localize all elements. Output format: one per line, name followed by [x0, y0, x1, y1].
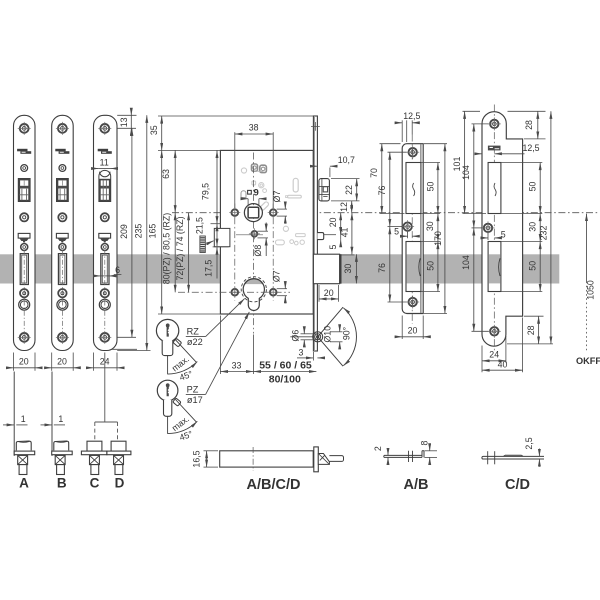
dimension 104 plate C/D screws	[472, 123, 489, 125]
svg-text:5: 5	[328, 244, 338, 249]
latch pivot detail circles	[316, 336, 319, 339]
faceplate latch head front	[58, 180, 68, 201]
svg-text:A/B: A/B	[404, 477, 429, 493]
svg-text:A/B/C/D: A/B/C/D	[247, 477, 301, 493]
lock faceplate bar front view	[313, 116, 317, 351]
profile view latch B	[51, 372, 53, 456]
faceplate cylinder hole	[57, 299, 68, 310]
svg-text:33: 33	[232, 360, 242, 370]
svg-text:79,5: 79,5	[201, 183, 211, 200]
strike plate C/D outline	[482, 112, 523, 346]
faceplate bolt slot	[58, 254, 66, 285]
extension line case top	[158, 149, 220, 151]
svg-text:35: 35	[149, 125, 159, 135]
dimension 50 upper slot plate A/B	[422, 162, 441, 164]
dimension 79.5	[216, 150, 218, 223]
svg-text:50: 50	[527, 182, 537, 192]
faceplate top screw	[58, 124, 67, 133]
faceplate follower screw	[58, 213, 66, 221]
faceplate follower screw	[20, 213, 28, 221]
strike plate A/B lip line	[420, 144, 422, 313]
svg-text:50: 50	[425, 182, 435, 192]
RZ leader to case cylinder	[206, 299, 245, 337]
dimension 76 lower plate A/B	[388, 301, 407, 303]
svg-text:30: 30	[527, 222, 537, 232]
section A/B hatch ticks	[408, 451, 410, 462]
svg-text:165: 165	[148, 224, 158, 239]
dimension 50 lower slot plate A/B	[422, 291, 441, 293]
deadbolt thrown white part	[313, 254, 339, 284]
svg-text:B: B	[57, 476, 67, 491]
dimension 76 upper plate A/B	[388, 151, 407, 153]
90 degree swing fan	[318, 307, 343, 337]
faceplate outline at x=93.5	[94, 115, 118, 350]
centerline through left hole column	[234, 204, 236, 301]
dimension 235 faceplate height	[117, 350, 150, 352]
strike plate A/B latch slot	[406, 163, 421, 214]
faceplate wechsel plate	[18, 233, 30, 238]
svg-text:2: 2	[373, 446, 383, 451]
svg-text:28: 28	[526, 325, 536, 335]
svg-text:10,7: 10,7	[338, 155, 355, 165]
svg-text:38: 38	[249, 123, 259, 133]
faceplate latch cutout	[57, 179, 69, 202]
dimension 5 middle screw offset plate C/D	[487, 233, 489, 240]
faceplate adjustment screw	[59, 165, 66, 172]
section A/B bent lip	[422, 451, 424, 458]
RZ key symbol	[166, 323, 170, 336]
band through bolt slot	[407, 254, 421, 283]
extension line lock top	[158, 115, 313, 117]
svg-text:30: 30	[425, 221, 435, 231]
dimension 50 upper slot plate C/D	[502, 162, 543, 164]
dimension 38 hole spacing	[234, 132, 236, 208]
strike plate A/B centerline	[411, 135, 413, 325]
strike plate C/D middle screw	[484, 224, 492, 232]
main horizontal centerline	[172, 212, 599, 214]
svg-text:235: 235	[133, 224, 143, 239]
svg-text:30: 30	[343, 264, 353, 274]
PZ rotation limit lines	[167, 417, 169, 434]
profile view latch D	[111, 441, 126, 451]
dimension 170 plate A/B height	[424, 143, 447, 145]
door cross-section gray band	[0, 254, 559, 283]
dimension 24 plate C/D	[481, 346, 483, 373]
svg-text:21,5: 21,5	[195, 217, 205, 234]
svg-text:12,5: 12,5	[403, 111, 420, 121]
faceplate bottom screw	[58, 333, 67, 342]
svg-text:A: A	[19, 476, 29, 491]
dimension 24 faceplate C/D width	[93, 353, 95, 371]
dimension 13 fp3 top to screw	[117, 114, 136, 116]
dimension 17.5	[216, 247, 218, 278]
dimension 21.5 wechsel	[216, 224, 218, 247]
svg-text:209: 209	[119, 224, 129, 239]
fixing hole right of cylinder	[270, 289, 277, 296]
strike plate A/B top screw	[409, 148, 417, 156]
dimension 22 latch height	[331, 178, 360, 180]
dimension 40 plate C/D	[522, 318, 524, 373]
svg-text:RZ: RZ	[187, 327, 200, 337]
svg-text:70: 70	[369, 168, 379, 178]
faceplate latch cutout rounded	[99, 170, 111, 201]
profile view latch A	[13, 372, 15, 456]
svg-text:6: 6	[115, 265, 120, 275]
section C/D strike plate	[482, 456, 544, 459]
faceplate logo	[17, 149, 27, 152]
faceplate adjustment screw	[21, 165, 28, 172]
svg-text:3: 3	[298, 347, 303, 357]
auxiliary bolt	[317, 233, 323, 240]
cylinder row centerline	[178, 291, 290, 293]
faceplate top screw	[20, 124, 29, 133]
center hole below follower	[252, 231, 258, 237]
strike plate C/D bottom screw	[490, 327, 498, 335]
faceplate cylinder hole	[99, 299, 110, 310]
side view latch wedge	[318, 454, 329, 465]
dimension 41 centerline to deadbolt	[351, 213, 353, 255]
RZ cylinder detail	[156, 319, 178, 341]
fixing hole right of follower	[270, 209, 277, 216]
dashed circle RZ 22mm option	[241, 277, 266, 302]
dimension 232 plate C/D height	[507, 343, 553, 345]
dimension 80(PZ)/80.5(RZ)	[174, 213, 176, 293]
PZ leader to case cylinder	[206, 312, 250, 395]
svg-text:90°: 90°	[341, 327, 351, 340]
svg-text:D: D	[115, 476, 125, 491]
strike plate C/D bolt slot	[488, 242, 501, 292]
lock case body	[220, 150, 313, 314]
band through plate C/D bolt slot	[489, 254, 501, 283]
bar top screw cross	[311, 125, 320, 127]
svg-text:9: 9	[254, 187, 259, 198]
PZ leader underline	[186, 393, 206, 395]
strike plate C/D centerline	[493, 105, 495, 353]
faceplate small screw	[101, 244, 108, 251]
deadbolt head edge thick	[340, 254, 342, 284]
centerline through right hole column	[272, 204, 274, 301]
svg-text:104: 104	[461, 165, 471, 180]
dimension 70 plate A/B	[380, 143, 401, 145]
dimension 165 case height	[161, 150, 163, 314]
svg-text:20: 20	[19, 356, 29, 366]
dimension 5 middle screw offset plate A/B	[407, 232, 409, 239]
svg-text:OKFF: OKFF	[576, 356, 600, 366]
latch front view	[319, 179, 330, 201]
leader arrow to wechsel cutout	[206, 241, 214, 245]
svg-text:170: 170	[433, 231, 443, 246]
dimension 33 backset part	[219, 316, 221, 375]
svg-text:11: 11	[100, 158, 109, 168]
svg-text:PZ: PZ	[187, 385, 199, 395]
dimension 30 between slots plate A/B	[422, 241, 441, 243]
faceplate logo	[98, 149, 108, 152]
faceplate latch head front	[100, 180, 110, 201]
faceplate bolt slot	[20, 254, 28, 285]
PZ key symbol	[166, 383, 170, 396]
dimension 16.5 case thickness	[204, 450, 219, 452]
faceplate cylinder hole	[19, 299, 30, 310]
svg-text:20: 20	[57, 356, 67, 366]
dimension 104 lower plate C/D screws	[472, 330, 489, 332]
dimension 11 latch cutout width fp3	[93, 168, 99, 170]
dimension 63 case top to centerline	[174, 150, 176, 212]
dimension 20 faceplate B width	[51, 353, 53, 371]
svg-text:1050: 1050	[586, 280, 596, 300]
svg-text:Ø8: Ø8	[253, 245, 263, 257]
dimension 6 bolt slot width fp3	[94, 275, 101, 277]
faceplate bolt slot	[101, 254, 109, 285]
faceplate outline at x=51.7	[52, 115, 73, 350]
svg-text:20: 20	[408, 325, 418, 335]
faceplate latch cutout	[18, 179, 30, 202]
svg-text:28: 28	[524, 120, 534, 130]
svg-text:1: 1	[58, 414, 63, 424]
faceplate logo	[55, 149, 65, 152]
svg-text:C/D: C/D	[505, 477, 530, 493]
svg-text:5: 5	[501, 229, 506, 239]
svg-text:Ø7: Ø7	[272, 270, 282, 282]
PZ cylinder detail	[157, 380, 178, 401]
dimension 5 aux bolt height	[340, 228, 342, 235]
dimension 12.5 plate C/D	[476, 153, 482, 155]
svg-text:22: 22	[344, 185, 354, 195]
svg-text:76: 76	[377, 186, 387, 196]
strike plate C/D latch slot	[488, 163, 501, 214]
dimension 1 profile A	[3, 424, 14, 426]
faceplate bottom screw	[20, 333, 29, 342]
dimension 20 plate A/B width	[401, 316, 403, 340]
case vertical centerline	[252, 153, 254, 334]
faceplate latch head front	[19, 180, 29, 201]
svg-text:72(PZ) / 74 (RZ): 72(PZ) / 74 (RZ)	[175, 216, 185, 280]
strike plate A/B outline	[402, 144, 423, 314]
svg-text:104: 104	[461, 255, 471, 270]
svg-text:1: 1	[21, 414, 26, 424]
svg-text:20: 20	[324, 288, 334, 298]
dimension 20 centerline to aux bolt	[340, 213, 342, 235]
section C/D hatch ticks	[487, 451, 489, 464]
svg-text:12: 12	[339, 202, 349, 212]
svg-text:55 / 60 / 65: 55 / 60 / 65	[259, 359, 312, 371]
svg-text:232: 232	[538, 226, 548, 241]
svg-text:24: 24	[489, 350, 499, 360]
svg-text:12,5: 12,5	[522, 143, 539, 153]
faceplate bottom screw	[100, 333, 109, 342]
follower with square spindle hole 9mm	[244, 204, 262, 222]
dimension 20 faceplate A width	[13, 353, 15, 371]
profile view latch C	[87, 441, 102, 451]
side view lock case bar	[220, 451, 314, 467]
dimension 1 profile B	[41, 424, 53, 426]
dimension 10.7 latch projection	[329, 168, 331, 178]
RZ leader underline	[186, 336, 206, 338]
dimension 1050 height above floor	[586, 214, 588, 282]
svg-text:ø17: ø17	[187, 395, 203, 405]
dimension 12.5 plate A/B	[406, 120, 408, 142]
faceplate small screw	[59, 244, 66, 251]
svg-text:ø22: ø22	[187, 337, 203, 347]
dimension 30 deadbolt height	[355, 254, 357, 283]
faceplate outline at x=13.5	[14, 115, 36, 350]
cylinder hole PZ shape	[243, 279, 264, 311]
side view spindle pin	[329, 456, 343, 462]
svg-text:16,5: 16,5	[191, 450, 201, 467]
RZ rotation limit lines	[167, 356, 169, 375]
svg-text:50: 50	[527, 261, 537, 271]
svg-text:20: 20	[328, 217, 338, 227]
faceplate top screw	[100, 124, 109, 133]
svg-text:13: 13	[119, 117, 129, 127]
faceplate wechsel plate	[99, 233, 111, 238]
dimension 12 latch to centerline	[351, 201, 353, 213]
fixing hole left of follower	[232, 209, 239, 216]
dimension 28 top plate C/D	[508, 110, 546, 112]
dimension 72(PZ)/74(RZ)	[188, 213, 190, 293]
extension line case bottom	[158, 313, 220, 315]
dimension 209 screw spacing fp3	[117, 336, 136, 338]
connector line fp3 to profiles C/D	[104, 353, 106, 423]
svg-text:17,5: 17,5	[203, 260, 213, 277]
svg-text:80(PZ) / 80,5 (RZ): 80(PZ) / 80,5 (RZ)	[161, 213, 171, 284]
svg-text:5: 5	[394, 226, 399, 236]
dimension 20 bolt throw	[318, 285, 320, 302]
wechsel cutout on case left edge	[214, 228, 230, 246]
faceplate lower screw	[101, 289, 109, 297]
fixing hole left of cylinder	[232, 289, 239, 296]
dimension 3 faceplate lip	[312, 352, 314, 361]
dimension 50 lower slot plate C/D	[502, 291, 543, 293]
strike plate C/D top screw	[490, 120, 498, 128]
faceplate small screw	[21, 244, 28, 251]
strike plate C/D logo	[488, 146, 501, 151]
faceplate lower screw	[20, 289, 28, 297]
svg-text:Ø7: Ø7	[272, 191, 282, 203]
svg-text:8: 8	[420, 440, 430, 445]
striped switch element	[200, 236, 205, 253]
faceplate lower screw	[58, 289, 66, 297]
strike plate A/B middle screw	[403, 222, 411, 230]
dimension 35 faceplate top to case top	[161, 116, 163, 150]
band visible through cylinder hole	[245, 279, 263, 284]
svg-text:76: 76	[377, 263, 387, 273]
strike plate A/B bottom screw	[409, 298, 417, 306]
dimension 55/60/65 backset	[253, 371, 316, 373]
dimension 101 plate C/D	[463, 110, 481, 112]
svg-text:40: 40	[498, 359, 508, 369]
svg-text:Ø6: Ø6	[291, 330, 301, 342]
strike plate A/B bolt slot	[406, 242, 421, 292]
section C/D lap segment	[505, 454, 522, 456]
reference line fp3 bottom screw	[112, 348, 138, 350]
svg-text:63: 63	[161, 169, 171, 179]
faceplate wechsel plate	[56, 233, 68, 238]
section A/B strike plate	[384, 455, 422, 457]
dimension square 9 follower	[248, 190, 252, 194]
side view faceplate	[314, 447, 319, 472]
svg-text:50: 50	[425, 261, 435, 271]
svg-text:C: C	[90, 476, 100, 491]
dimension 30 plate C/D	[502, 241, 543, 243]
svg-text:80/100: 80/100	[269, 374, 301, 386]
faceplate follower screw	[101, 213, 109, 221]
svg-text:2,5: 2,5	[524, 437, 534, 449]
svg-text:Ø10: Ø10	[323, 326, 333, 343]
case internals light parts	[241, 168, 246, 173]
dimension 28 bottom plate C/D	[524, 315, 544, 317]
